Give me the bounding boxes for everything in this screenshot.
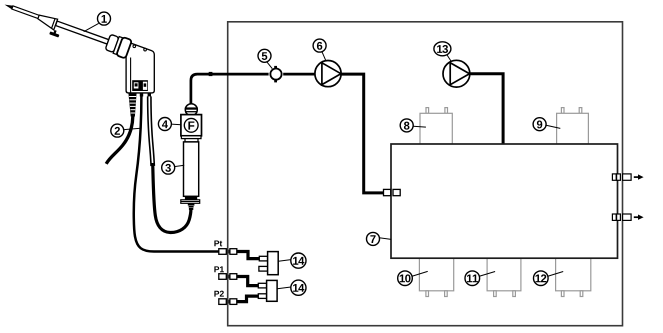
outlet 2: [612, 214, 643, 220]
wire: pump 13 to manifold top: [470, 74, 504, 144]
node Pt label: [214, 240, 222, 246]
thin tube: [12, 6, 40, 19]
hose U to filter: [153, 163, 191, 233]
tube B upper (hollow): [149, 96, 152, 166]
sensor module 12: [556, 258, 591, 296]
coupling rings: [105, 33, 132, 59]
label 14a: [291, 253, 306, 268]
tube A (to Pt): [134, 96, 220, 251]
label 4: [158, 118, 181, 131]
sensor module 11: [487, 258, 521, 296]
wire P2 to plug 2: [236, 296, 258, 302]
label 1: [84, 12, 111, 32]
label 8: [400, 119, 426, 132]
handle screws: [133, 45, 136, 48]
valve 5: [270, 66, 281, 83]
P2 connector: [219, 299, 237, 305]
sensor module 9: [557, 108, 589, 144]
pump 6: [315, 61, 341, 87]
filter F box: [181, 115, 202, 136]
handle connector block: [132, 80, 148, 91]
label 7: [367, 232, 392, 245]
enclosure box: [228, 22, 623, 326]
plug 14a: [259, 252, 291, 275]
label 5: [258, 49, 272, 68]
condensate cylinder 3: [184, 142, 199, 196]
hose junction nub: [209, 72, 213, 76]
wire: pump 6 to manifold inlet: [341, 74, 384, 193]
label 12: [534, 271, 564, 286]
tube exit nubs: [140, 93, 143, 97]
node P2 label: [214, 291, 223, 297]
cable 2: [106, 117, 133, 164]
flange under box: [181, 136, 201, 139]
probe tip: [4, 3, 14, 10]
probe assembly 1: [0, 1, 109, 54]
label 14b: [291, 280, 306, 295]
plug 14b: [258, 280, 291, 301]
bottom cap: [185, 196, 197, 199]
wire: filter outlet to valve 5: [191, 74, 269, 105]
label 13: [434, 42, 451, 62]
manifold inlet connector: [384, 189, 401, 195]
wire: valve 5 to pump 6: [283, 73, 315, 76]
label 9: [533, 118, 560, 131]
label 11: [465, 271, 495, 286]
dome: [185, 104, 197, 116]
outlet 1: [612, 174, 643, 180]
handle body: [126, 43, 154, 93]
wire P1 to plug 2: [237, 277, 259, 286]
positioning cone: [36, 13, 57, 30]
manifold block 7: [391, 144, 618, 258]
thumbscrew: [53, 30, 56, 34]
sensor module 10: [419, 258, 453, 296]
wire Pt to plug 1: [237, 252, 260, 259]
label 10: [398, 271, 428, 286]
pump 13: [443, 60, 470, 87]
label 2: [111, 124, 141, 137]
P1 connector: [219, 274, 237, 280]
node P1 label: [214, 266, 224, 272]
Pt connector: [219, 249, 237, 255]
filter assembly: [181, 104, 202, 210]
sensor module 8: [420, 108, 452, 144]
label 3: [162, 161, 185, 174]
main probe tube: [56, 21, 109, 44]
label 6: [313, 39, 326, 61]
strain relief: [128, 93, 136, 117]
